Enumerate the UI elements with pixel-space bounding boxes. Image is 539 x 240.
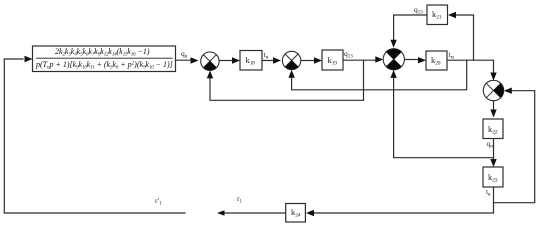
label: t_v under k23 <box>486 188 490 198</box>
wire: k20 output to corner above S4 <box>447 60 494 72</box>
label: q13 on k21 output <box>414 6 423 16</box>
label: k18 <box>246 56 255 67</box>
wire: S1 to k18 <box>219 60 232 62</box>
wire: k23 output down and left to k24 <box>314 187 494 213</box>
label: k23 <box>488 173 497 184</box>
arrowhead into S3 left <box>375 56 383 62</box>
wire: k24 output r1 <box>224 212 286 214</box>
label: r1 on k24 output <box>237 195 242 205</box>
arrowhead into S4 top <box>490 73 496 81</box>
wire: k22 to k23 with q_p branch node <box>493 139 495 160</box>
label: numerator of W(p) <box>55 48 150 58</box>
summing junction S2 <box>282 51 300 69</box>
arrowhead into S4 right side <box>504 88 512 94</box>
wire: k21 output to S3 top <box>394 15 427 42</box>
label: k19 <box>328 56 337 67</box>
label: q_v on W(p) output <box>181 50 187 60</box>
arrowhead into k18 <box>232 57 240 63</box>
arrowhead into k24 right side <box>306 210 314 216</box>
wire: q_p branch to S3 bottom <box>394 78 494 158</box>
label: t_m after k20 <box>449 51 454 61</box>
wire: W(p) block output to S1 <box>176 59 192 61</box>
block k21 <box>427 5 448 25</box>
arrowhead into S1 <box>191 57 199 63</box>
arrowhead at left end of r1 line <box>217 210 225 216</box>
wire: S4 output down to k22 <box>493 101 495 112</box>
wire: feedback r'1 left loop <box>4 59 185 213</box>
arrowhead into S2 bottom <box>288 70 294 78</box>
wire: t_v branch right and up to S4 right input <box>494 91 535 203</box>
block k19 <box>322 50 343 70</box>
arrowhead into k22 top <box>490 110 496 118</box>
arrowhead into S3 bottom <box>390 70 396 78</box>
label: k22 <box>488 125 497 136</box>
wire: k18 to S2 <box>262 60 274 62</box>
wire: branch after k20 up to k21 input <box>456 15 474 60</box>
wire: S3 to k20 <box>405 59 419 61</box>
summing junction S4 <box>483 80 503 100</box>
block k23 <box>483 167 503 187</box>
block k20 <box>426 51 447 70</box>
label: k20 <box>431 56 440 67</box>
arrowhead into W(p) <box>25 56 33 62</box>
wire: S2 to k19 <box>301 60 315 62</box>
block k22 <box>483 119 503 139</box>
arrowhead into S3 top <box>390 40 396 48</box>
block k18 <box>240 51 262 71</box>
arrowhead into k20 <box>418 57 426 63</box>
block k24 <box>286 204 306 223</box>
summing junction S1 <box>201 52 219 70</box>
wire: feedback from node after k20 to S2 bottom <box>292 60 467 90</box>
block W(p) transfer function <box>33 46 176 72</box>
label: r'1 on left feedback line <box>155 197 162 207</box>
arrowhead into k21 right side <box>448 12 456 18</box>
summing junction S3 <box>383 49 404 70</box>
label: q_p under k22 <box>487 140 493 150</box>
wire: feedback from node after k19 to S1 bottom <box>210 60 364 100</box>
arrowhead into k23 top <box>490 159 496 167</box>
label: denominator of W(p) <box>36 61 173 71</box>
arrowhead into k19 <box>314 57 322 63</box>
label: q13 after k19 <box>344 50 353 60</box>
wire: k19 to S3 with branch node <box>343 59 376 61</box>
label: k21 <box>432 10 441 21</box>
label: k24 <box>291 208 300 219</box>
arrowhead into S1 bottom <box>207 70 213 78</box>
label: t_i after k18 <box>264 51 269 61</box>
arrowhead into S2 <box>273 57 281 63</box>
fraction bar of W(p) <box>37 57 173 59</box>
